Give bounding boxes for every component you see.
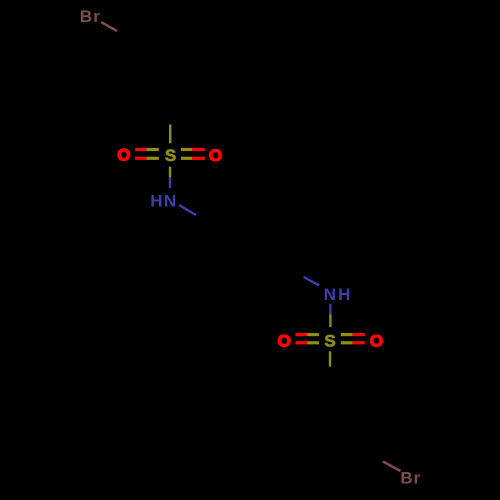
- svg-text:H: H: [150, 191, 162, 210]
- svg-text:O: O: [117, 146, 130, 165]
- svg-text:O: O: [278, 331, 291, 350]
- svg-text:B: B: [80, 7, 92, 26]
- svg-text:O: O: [370, 331, 383, 350]
- svg-text:N: N: [164, 191, 176, 210]
- svg-text:S: S: [165, 146, 176, 165]
- svg-text:r: r: [413, 469, 420, 488]
- svg-text:N: N: [324, 285, 336, 304]
- svg-text:S: S: [324, 332, 335, 351]
- svg-text:r: r: [93, 7, 100, 26]
- svg-text:H: H: [338, 285, 350, 304]
- svg-text:B: B: [400, 469, 412, 488]
- svg-text:O: O: [209, 146, 222, 165]
